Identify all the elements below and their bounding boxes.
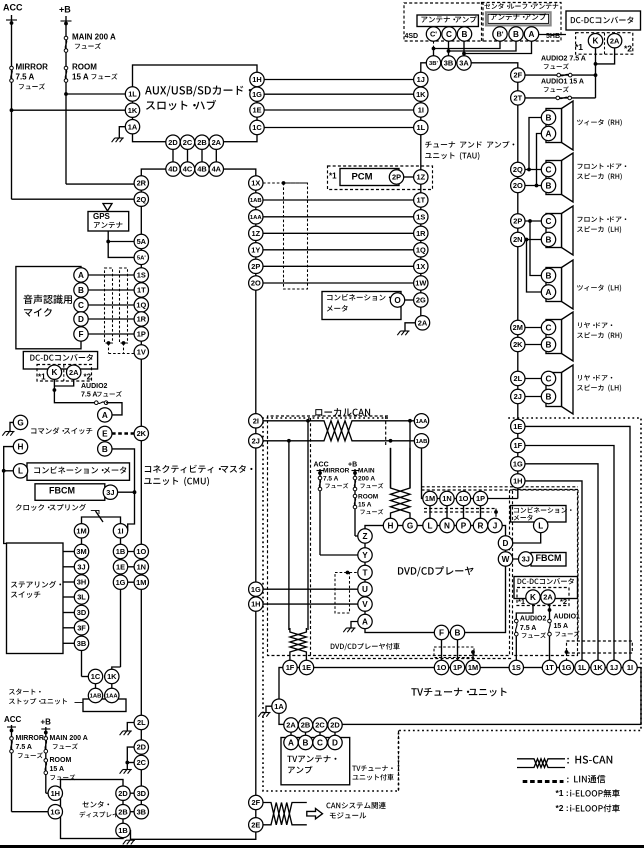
svg-text:H: H — [18, 443, 24, 452]
wire TAU 2Q to front door speaker RH C — [525, 169, 542, 171]
wire ACC to center display 1G — [12, 811, 49, 813]
svg-text:2K: 2K — [513, 340, 523, 349]
svg-text:A: A — [362, 617, 368, 626]
CMU 1AB column to pin row 1M-1P — [422, 448, 424, 499]
connector pin 1T (CMU) — [134, 283, 148, 297]
svg-text:2P: 2P — [251, 262, 260, 271]
svg-text:2P: 2P — [392, 173, 401, 182]
wire 1M TV pin up to LIN dot — [472, 652, 474, 660]
svg-text:C: C — [317, 738, 323, 747]
connector pin 2A (left DC-DC) — [67, 365, 81, 379]
connector pin 2D (AUX bottom) — [166, 135, 180, 149]
connector pin 1E (TV) — [299, 660, 313, 674]
wires fuses down to TV tuner 1S/1T — [515, 636, 517, 660]
svg-text:1F: 1F — [286, 663, 295, 672]
center rail from 2R down to 3B (center display area) — [140, 183, 142, 812]
connector pin 1M (row) — [423, 491, 437, 505]
center display box — [61, 780, 124, 839]
connector pin 2J (CMU) — [249, 434, 263, 448]
svg-text:1E: 1E — [252, 106, 261, 115]
connector pin 1Q (CMU) — [134, 298, 148, 312]
dotted wire antenna C' to 3B' (i-ELOOP variant) — [433, 41, 435, 49]
connector pin B (rear door LH) — [541, 389, 555, 403]
svg-text:2R: 2R — [137, 179, 147, 188]
connector pin A (DVD) — [358, 614, 372, 628]
CAN twisted pair to CAN system module — [263, 803, 307, 825]
connector pin 2D (center display) — [116, 786, 130, 800]
svg-text:2A: 2A — [69, 368, 79, 377]
svg-text:AUDIO1 15 A: AUDIO1 15 A — [541, 79, 584, 86]
svg-text:1C: 1C — [91, 672, 101, 681]
svg-text:3A: 3A — [459, 59, 469, 68]
svg-text:GPS: GPS — [93, 212, 111, 221]
connector pin 5A — [134, 234, 148, 248]
local CAN label — [315, 408, 370, 416]
svg-text:L: L — [427, 521, 432, 530]
svg-text:1Q: 1Q — [416, 245, 426, 254]
svg-text:1J: 1J — [610, 663, 618, 672]
svg-text:MIRROR: MIRROR — [16, 62, 49, 71]
connector pin B (5HB amp) — [509, 27, 523, 41]
PCM dashed box — [328, 166, 433, 190]
svg-text:P: P — [461, 521, 467, 530]
connector pin 1G (AUX right) — [250, 87, 264, 101]
connector pin 1M (clock spring) — [74, 524, 88, 538]
svg-text:A: A — [288, 738, 294, 747]
connector pin C (rear door LH) — [541, 371, 555, 385]
svg-text:ACC: ACC — [3, 3, 23, 13]
connector pin 2A (right DC-DC) — [541, 590, 555, 604]
connector pin 1L (TV) — [575, 660, 589, 674]
wire ACC to DVD Y — [320, 554, 358, 556]
svg-text:1S: 1S — [512, 663, 521, 672]
connector pin B' (5HB amp) — [493, 27, 507, 41]
start-stop unit label — [9, 689, 41, 695]
svg-text:2I: 2I — [253, 416, 259, 425]
svg-text:MIRROR: MIRROR — [323, 467, 350, 474]
antenna amp box (4SD) — [417, 15, 478, 27]
svg-text:PCM: PCM — [351, 171, 372, 182]
dashed box around K/2A (left DC-DC) — [37, 365, 92, 382]
wire TAU 2P to front door speaker LH C — [525, 220, 542, 222]
row wire 4D-4A with bends to 2R and 1X — [141, 169, 256, 183]
connector pin A (TV antenna amp) — [284, 735, 298, 749]
svg-text:4C: 4C — [183, 165, 193, 174]
svg-text:1C: 1C — [252, 123, 262, 132]
connector pin 1J (TAU left) — [414, 72, 428, 86]
connector pin 2A (AUX bottom) — [209, 135, 223, 149]
svg-text:15 A: 15 A — [72, 72, 89, 81]
connector pin 3A (TAU top) — [457, 56, 471, 70]
svg-text:200 A: 200 A — [358, 475, 375, 482]
svg-text:B: B — [462, 30, 468, 39]
AUX/USB/SD card slot hub box — [133, 65, 258, 142]
connector pin F (mic) — [74, 327, 88, 341]
svg-text:2A: 2A — [543, 593, 553, 602]
wire TAU 2F through AUDIO2 fuse — [525, 74, 596, 76]
svg-text:2D: 2D — [137, 743, 147, 752]
svg-text:1P: 1P — [137, 330, 146, 339]
svg-text:2O: 2O — [251, 279, 261, 288]
connector pin B (rear door RH) — [541, 337, 555, 351]
connector pin 1P (row) — [473, 491, 487, 505]
wire D to L — [513, 533, 541, 543]
svg-text:1Z: 1Z — [251, 229, 260, 238]
svg-text:1R: 1R — [137, 315, 147, 324]
svg-text:1AA: 1AA — [250, 215, 263, 221]
wires pins 1M-1P down to DVD L/N/P/R — [429, 506, 431, 519]
fuse ROOM 15A (top left) — [64, 66, 68, 82]
wire 1M to 1I bridge (clock spring) — [82, 517, 121, 524]
wire fuse to commander pin A — [106, 403, 122, 415]
connector pin B (tweeter RH) — [541, 110, 555, 124]
antenna amp box (5HB) with double border — [486, 12, 551, 25]
svg-text:3J: 3J — [77, 562, 85, 571]
fuse MAIN 200A (top left) — [64, 36, 68, 52]
svg-text:2Q: 2Q — [513, 165, 523, 174]
connector pin J (DVD) — [488, 518, 502, 532]
wires center display 2D/2B to 3D/3B — [130, 792, 134, 794]
big dotted enclosure around CMU/DVD/TV-tuner area — [263, 418, 641, 791]
svg-text:1M: 1M — [136, 578, 146, 587]
svg-text:3B: 3B — [137, 807, 146, 816]
svg-text:1T: 1T — [416, 196, 425, 205]
connector pin 1C (AUX right) — [250, 120, 264, 134]
svg-text:1N: 1N — [442, 494, 451, 503]
connector pin E (commander) — [98, 426, 112, 440]
wire tweeter LH A tap — [527, 240, 542, 293]
svg-text:*1: *1 — [575, 42, 583, 52]
svg-text:2Q: 2Q — [136, 195, 146, 204]
connector pin 3J (FBCM right) — [519, 552, 533, 566]
connector pin 1W (TAU left) — [414, 276, 428, 290]
DC-DC converter box (top right) — [566, 11, 641, 30]
svg-text:A: A — [546, 129, 552, 138]
LIN dashed pair under CMU pins 1M-1P to DVD pin J — [424, 508, 496, 510]
svg-text:D: D — [78, 315, 84, 324]
connector pin N (DVD) — [440, 518, 454, 532]
connector pin 1AA — [105, 688, 119, 702]
connector pin 1K (TAU left) — [414, 87, 428, 101]
svg-text:1E: 1E — [513, 422, 522, 431]
svg-text:1A: 1A — [274, 702, 284, 711]
connector pin F (DVD bottom) — [434, 625, 448, 639]
connector pin 2A (TV bottom) — [284, 718, 298, 732]
svg-text:2C: 2C — [137, 758, 147, 767]
svg-text:C: C — [546, 165, 552, 174]
svg-text:3B: 3B — [444, 59, 453, 68]
svg-text:+B: +B — [41, 717, 52, 726]
connector pin 2P (PCM) — [389, 170, 403, 184]
connector pin 3H (steering) — [74, 575, 88, 589]
svg-text:C: C — [78, 301, 84, 310]
wire K/2A join and down to AUDIO2 fuse — [53, 379, 55, 390]
svg-text:2L: 2L — [513, 374, 522, 383]
wire ACC rail to TAU 2Q — [12, 198, 135, 200]
connector pin O (combination meter) — [390, 293, 404, 307]
connector pin L (combination meter left) — [13, 464, 27, 478]
pin row wire 1M-1P with 1H feed — [423, 498, 518, 500]
drop wires to 1F/1E of TV tuner with twist — [288, 441, 290, 630]
connector pin A (5HB amp) — [524, 27, 538, 41]
connector pin 1R (CMU) — [134, 312, 148, 326]
connector pin 2D (rail) — [134, 740, 148, 754]
wire antenna B(5HB) to 3B — [449, 41, 517, 56]
shield dashed box at T — [350, 572, 358, 574]
svg-text:A: A — [102, 411, 108, 420]
connector pin 3J (FBCM left) — [103, 485, 117, 499]
svg-text:5A: 5A — [137, 237, 147, 246]
connector pin 1R (TAU left) — [414, 226, 428, 240]
vertical from junction through AUDIO2 to AUDIO1 wire — [595, 64, 597, 98]
svg-text:1G: 1G — [252, 90, 262, 99]
connector pin 3J (steering) — [74, 560, 88, 574]
wire antenna A to DC-DC converter — [539, 34, 566, 36]
pair wires CMU left to TAU left — [256, 199, 414, 201]
connector pin K (top DC-DC) — [588, 34, 602, 48]
svg-text:1S: 1S — [416, 212, 425, 221]
svg-text:1T: 1T — [137, 286, 146, 295]
svg-text:1O: 1O — [136, 547, 146, 556]
connector pin 5A' — [134, 250, 148, 264]
svg-text:1O: 1O — [459, 494, 469, 503]
wire +B to DVD Z — [355, 535, 358, 537]
svg-text:U: U — [362, 585, 368, 594]
LIN bus dashed: vertical at x=310.5 down mid page — [310, 418, 312, 655]
connector pin 4D — [166, 162, 180, 176]
mic shield dashed boxes — [105, 268, 113, 343]
connector pin 1H (CMU left rail) — [249, 597, 263, 611]
svg-text:A: A — [529, 30, 535, 39]
connector pin 1G (center display) — [48, 805, 62, 819]
svg-text:2A: 2A — [418, 318, 428, 327]
connector pin 2O (CMU) — [249, 276, 263, 290]
steering switch stub wires — [63, 551, 74, 553]
svg-text:C: C — [546, 323, 552, 332]
svg-text:D: D — [503, 539, 509, 548]
dashed box 4SD antenna amp assembly — [404, 3, 483, 41]
svg-text:1H: 1H — [51, 789, 60, 798]
svg-text:*1: *1 — [38, 372, 46, 381]
connector pin C (rear door RH) — [541, 320, 555, 334]
front door speaker LH — [546, 206, 573, 255]
wire ACC to AUX pin 1K — [12, 109, 126, 111]
connector pin 3M (steering) — [74, 544, 88, 558]
svg-text:1W: 1W — [415, 279, 426, 288]
connector pin 1I (TV) — [623, 660, 637, 674]
fuse MAIN 200A (DVD area) — [353, 476, 357, 491]
connector pin B (DVD bottom) — [450, 625, 464, 639]
svg-text:AUDIO2 7.5 A: AUDIO2 7.5 A — [541, 56, 586, 63]
wire TAU 2T through AUDIO1 fuse — [525, 97, 596, 99]
connector pin H (DVD) — [383, 518, 397, 532]
svg-text:3D: 3D — [77, 608, 87, 617]
connector pin 1E (AUX right) — [250, 103, 264, 117]
svg-text:W: W — [502, 555, 510, 564]
svg-text:2N: 2N — [513, 235, 522, 244]
svg-text:15 A: 15 A — [50, 766, 65, 773]
svg-text:F: F — [439, 628, 444, 637]
fuse MIRROR 7.5A (top left) — [10, 66, 14, 82]
svg-text:1M: 1M — [76, 526, 86, 535]
svg-text:2O: 2O — [513, 181, 523, 190]
connector pin C' (4SD amp) — [426, 27, 440, 41]
fuse ROOM 15A (bottom left) — [44, 759, 48, 775]
tweeter LH speaker — [546, 260, 573, 309]
svg-text:7.5 A: 7.5 A — [323, 475, 339, 482]
svg-text:1K: 1K — [107, 672, 117, 681]
connector pin B (TV antenna amp) — [298, 735, 312, 749]
connector pin 1O (TV) — [434, 660, 448, 674]
svg-text:1R: 1R — [416, 229, 426, 238]
PCM box — [340, 169, 399, 186]
shield dashed box at 1X — [263, 182, 308, 184]
svg-text:1I: 1I — [627, 663, 633, 672]
svg-text:2J: 2J — [252, 436, 260, 445]
nested loop wires 1E-1H to TV tuner 1I-1L — [525, 426, 630, 660]
connector pin A (commander) — [98, 408, 112, 422]
svg-text:*2: *2 — [624, 44, 632, 54]
connector pin 2C (rail) — [134, 755, 148, 769]
combination meter box (center) — [322, 292, 401, 320]
FBCM box (right) — [531, 553, 566, 567]
connector pin U (DVD) — [358, 582, 372, 596]
svg-text:MAIN 200 A: MAIN 200 A — [50, 735, 88, 742]
connector pin 2F (CMU bottom) — [249, 795, 263, 809]
svg-text:1P: 1P — [453, 663, 462, 672]
connector pin 1F (TV) — [283, 660, 297, 674]
svg-text:1N: 1N — [137, 562, 146, 571]
svg-text:3J: 3J — [106, 488, 114, 497]
connector pin 2M (TAU right) — [511, 320, 525, 334]
connector pin A (tweeter LH) — [541, 285, 555, 299]
connector pin 2C (TV bottom) — [313, 718, 327, 732]
connector pin 1S (TAU left) — [414, 210, 428, 224]
wire PCM 2P to TAU 1Z — [399, 176, 414, 178]
svg-text:1G: 1G — [562, 663, 572, 672]
connector pin 3B (TAU top) — [441, 56, 455, 70]
svg-text:B: B — [546, 340, 552, 349]
DVD bottom pins F/B to 1O/1P — [441, 640, 443, 661]
connector pin 1F (TAU lower right) — [511, 438, 525, 452]
dashed enclosure right-side combination meter/FBCM/DC-DC group — [513, 490, 578, 656]
connector pin 1L (AUX left) — [125, 87, 139, 101]
TAU label — [425, 141, 514, 148]
svg-text:1X: 1X — [251, 179, 260, 188]
GPS antenna box — [88, 212, 129, 232]
steering switch column rail — [81, 538, 83, 677]
wire 3J to rail junction — [105, 491, 135, 493]
svg-text:2E: 2E — [251, 820, 260, 829]
wire +B to center display 1H — [46, 792, 48, 794]
svg-text:1I: 1I — [117, 526, 123, 535]
connector pin 1G — [113, 575, 127, 589]
svg-text:1S: 1S — [137, 271, 146, 280]
connector pin L (combination meter right) — [534, 518, 548, 532]
wire antenna B(4SD) to 3A — [463, 41, 465, 54]
svg-text:1F: 1F — [513, 441, 522, 450]
svg-text:7.5 A: 7.5 A — [16, 72, 35, 81]
connector pin 1A (TV left) — [272, 699, 286, 713]
connector pin 3D — [134, 786, 148, 800]
connector pin 3F (steering) — [74, 621, 88, 635]
fuse ROOM 15A (DVD area) — [353, 494, 357, 509]
svg-text:3F: 3F — [77, 623, 86, 632]
svg-text:G: G — [17, 418, 23, 427]
connector pin Y (DVD) — [358, 548, 372, 562]
start-stop unit box — [83, 699, 126, 712]
connector pin 2Q — [134, 192, 148, 206]
connector pin 2F (TAU right) — [511, 68, 525, 82]
fuse AUDIO2 7.5A (left) — [95, 401, 108, 405]
connector pin 1AA (CMU) — [249, 210, 263, 224]
connector pin 1K (AUX left) — [125, 103, 139, 117]
svg-text:2A: 2A — [610, 36, 620, 45]
voice recognition mic box — [16, 267, 81, 349]
svg-text:1B: 1B — [116, 547, 125, 556]
DVD/CD player box — [365, 526, 506, 633]
connector pin 2O (TAU right) — [511, 178, 525, 192]
svg-text:4B: 4B — [197, 165, 206, 174]
connector pin G (DVD) — [403, 518, 417, 532]
svg-text:E: E — [102, 429, 108, 438]
svg-text:1G: 1G — [251, 585, 261, 594]
rear door speaker LH — [546, 365, 573, 414]
svg-text:B: B — [102, 445, 108, 454]
wires CMU 1G/1H to DVD U/V — [263, 588, 358, 590]
wire 1B to bottom rail with ground — [122, 823, 124, 830]
TV antenna amp box — [281, 738, 350, 785]
wire 2A down joining K — [596, 48, 615, 64]
svg-text:4SD: 4SD — [405, 33, 419, 40]
svg-text:2G: 2G — [416, 296, 426, 305]
svg-text:1M: 1M — [468, 663, 478, 672]
svg-text:1H: 1H — [252, 75, 261, 84]
TV antenna amp pins 2A-2D on TV box bottom — [290, 732, 292, 736]
svg-text:1K: 1K — [128, 106, 138, 115]
svg-text:1E: 1E — [302, 663, 311, 672]
connector pin R (DVD) — [473, 518, 487, 532]
svg-text:*1: *1 — [518, 597, 525, 606]
connector pin H (commander) — [13, 439, 27, 453]
dashed box 5HB center roof antenna assembly — [482, 3, 562, 42]
page bottom border bar — [0, 845, 644, 848]
connector pin 2B (center display) — [116, 805, 130, 819]
connector pin A (mic) — [74, 268, 88, 282]
connector pin G (commander) — [13, 415, 27, 429]
svg-text:C: C — [446, 30, 452, 39]
svg-text:1AB: 1AB — [250, 198, 262, 204]
svg-text:V: V — [362, 600, 368, 609]
connector pin 1S (TV) — [509, 660, 523, 674]
svg-text:1O: 1O — [437, 663, 447, 672]
connector pin 3B — [134, 805, 148, 819]
CMU label (center) — [145, 465, 253, 473]
connector pin 1E (TAU lower right) — [511, 419, 525, 433]
svg-text:7.5 A: 7.5 A — [16, 744, 32, 751]
connector pin D (mic) — [74, 312, 88, 326]
svg-text:F: F — [78, 330, 83, 339]
svg-text:1A: 1A — [128, 122, 138, 131]
ground at DVD A — [351, 622, 358, 629]
DC-DC converter box (right) — [514, 577, 578, 599]
dashed LIN box under F/B — [434, 647, 474, 658]
tweeter RH speaker — [546, 101, 573, 150]
connector pin 2K (CMU) — [134, 426, 148, 440]
svg-text:3B': 3B' — [429, 61, 439, 67]
connector pin 1Q (TAU left) — [414, 243, 428, 257]
junction ACC to AUX 1K — [10, 108, 14, 112]
